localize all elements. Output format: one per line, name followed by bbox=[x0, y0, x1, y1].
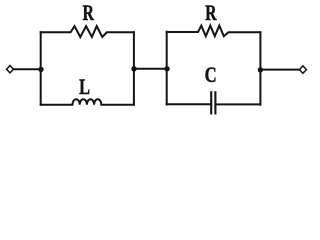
svg-text:L: L bbox=[79, 76, 90, 100]
svg-text:C: C bbox=[205, 64, 217, 88]
svg-text:R: R bbox=[82, 1, 94, 25]
svg-text:R: R bbox=[205, 2, 217, 26]
